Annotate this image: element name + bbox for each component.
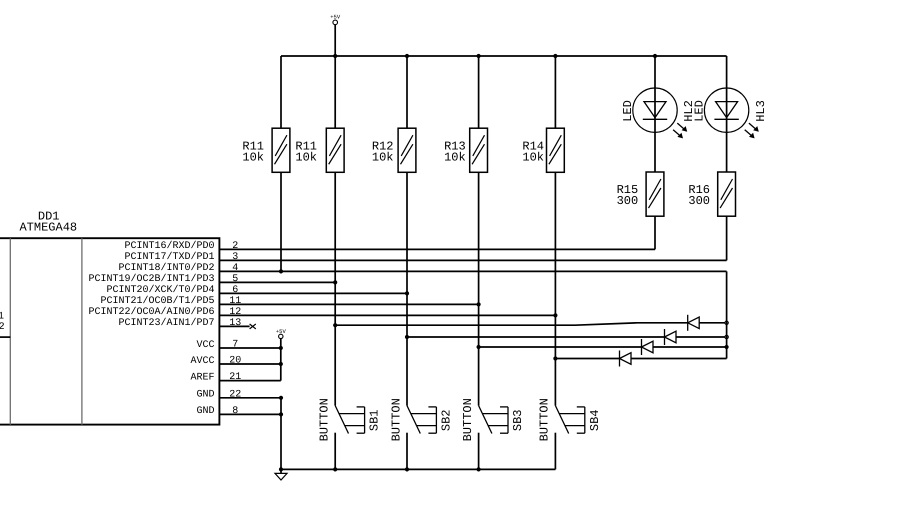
node gnd bus SB3 junction [477, 467, 481, 471]
node GND8 junction [279, 412, 283, 416]
node gnd bus SB1 junction [333, 467, 337, 471]
wire diode row A from SB1 [335, 323, 726, 325]
svg-text:2: 2 [0, 322, 5, 333]
IC internal divider 1 [9, 238, 11, 424]
svg-text:22: 22 [229, 389, 241, 400]
svg-text:300: 300 [617, 194, 639, 208]
svg-text:PCINT18/INT0/PD2: PCINT18/INT0/PD2 [118, 262, 214, 274]
node rowB/SB2 junction [405, 335, 409, 339]
svg-text:LED: LED [621, 100, 635, 122]
svg-text:10k: 10k [444, 150, 466, 164]
svg-text:AREF: AREF [190, 372, 214, 383]
resistor R11a 10k [242, 128, 290, 172]
wire bus to R11a [280, 56, 282, 128]
wire pin13 row PD7 stub [219, 325, 249, 327]
wire AVCC row [219, 363, 280, 365]
svg-text:ATMEGA48: ATMEGA48 [19, 221, 77, 235]
wire pin12 row PD6 to SB4 column [219, 314, 555, 316]
node gnd bus SB2 junction [405, 467, 409, 471]
svg-text:6: 6 [232, 285, 238, 296]
wire GND pin22 row [219, 397, 281, 399]
wire pin4 row PD2 to right vertical [219, 270, 726, 272]
wire diode row D from SB4 [555, 358, 726, 360]
svg-text:11: 11 [229, 296, 241, 307]
node bus/HL2 junction [653, 54, 657, 58]
wire diode row B from SB2 [407, 336, 727, 338]
switch SB1 BUTTON [318, 172, 382, 469]
resistor R13 10k [444, 128, 487, 172]
svg-text:10k: 10k [522, 150, 544, 164]
no-connect marker on pin13 [250, 324, 256, 329]
node rowD/SB4 junction [553, 356, 557, 360]
resistor R15 300 [617, 172, 664, 216]
node AVCC junction [279, 362, 283, 366]
svg-text:PCINT20/XCK/T0/PD4: PCINT20/XCK/T0/PD4 [106, 284, 214, 296]
wire bus to R13 [478, 56, 480, 128]
wire R15 to pin2 row [654, 216, 656, 249]
LED HL2 [621, 88, 696, 172]
op IC DD1 ATMEGA48 box [0, 238, 219, 424]
node pin11/SB3 junction [477, 302, 481, 306]
svg-text:7: 7 [232, 340, 238, 351]
resistor R14 10k [522, 128, 564, 172]
node rowA/right vertical junction [725, 321, 728, 324]
IC internal divider 2 [81, 238, 83, 424]
wire pin6 row PD4 to SB2 column [219, 292, 407, 294]
wire bus to R11b [334, 56, 336, 128]
wire pin2 row PD0 to R15 column [219, 248, 655, 250]
svg-text:10k: 10k [295, 150, 317, 164]
wire +5V stem to bus [334, 25, 336, 56]
ground symbol [280, 469, 282, 473]
switch SB4 BUTTON [538, 172, 602, 469]
svg-text:PCINT19/OC2B/INT1/PD3: PCINT19/OC2B/INT1/PD3 [88, 273, 214, 285]
wire pin11 row PD5 to SB3 column [219, 303, 478, 305]
wire bottom ground bus [281, 468, 555, 470]
diode D1 row A [688, 315, 700, 331]
wire bus to HL3 [726, 56, 728, 88]
svg-text:PCINT22/OC0A/AIN0/PD6: PCINT22/OC0A/AIN0/PD6 [88, 306, 214, 318]
diode D4 row D [620, 351, 632, 367]
svg-text:SB4: SB4 [588, 409, 602, 431]
diode D3 row C [642, 339, 654, 355]
node rowC/SB3 junction [477, 345, 481, 349]
svg-text:PCINT23/AIN1/PD7: PCINT23/AIN1/PD7 [118, 317, 214, 329]
svg-text:3: 3 [232, 252, 238, 263]
svg-text:LED: LED [693, 100, 707, 122]
switch SB2 BUTTON [389, 172, 453, 469]
svg-text:SB3: SB3 [511, 409, 525, 431]
node bus/R11 junction [333, 54, 337, 58]
svg-text:2: 2 [232, 241, 238, 252]
svg-text:AVCC: AVCC [190, 356, 214, 367]
svg-text:+5V: +5V [330, 14, 341, 21]
node VCC junction [279, 346, 283, 350]
wire R16 to pin3 row [726, 216, 728, 260]
svg-text:1: 1 [0, 311, 4, 322]
resistor R16 300 [688, 172, 735, 216]
wire right vertical pin4 to row D [726, 271, 728, 358]
svg-text:BUTTON: BUTTON [538, 398, 552, 441]
svg-text:HL3: HL3 [754, 100, 768, 122]
svg-text:GND: GND [196, 406, 214, 417]
node pin6/SB2 junction [405, 291, 409, 295]
wire +5V mid vertical [280, 339, 282, 381]
svg-text:BUTTON: BUTTON [461, 398, 475, 441]
svg-text:13: 13 [229, 318, 241, 329]
node pin12/SB4 junction [553, 313, 557, 317]
wire IC left pin stub [0, 336, 10, 338]
wire pin3 row PD1 to R16 column [219, 259, 726, 261]
wire R11a to pin4 row [280, 172, 282, 271]
svg-text:BUTTON: BUTTON [389, 398, 403, 441]
node bus/R14 junction [553, 54, 557, 58]
node bus/R12 junction [405, 54, 409, 58]
svg-text:5: 5 [232, 274, 238, 285]
svg-text:VCC: VCC [196, 340, 214, 351]
wire AREF row [219, 380, 280, 382]
wire bus to HL2 [654, 56, 656, 88]
wire diode row C from SB3 [479, 346, 727, 348]
svg-text:10k: 10k [372, 150, 394, 164]
svg-text:300: 300 [688, 194, 710, 208]
node rowC/right vertical junction [725, 345, 729, 349]
svg-text:10k: 10k [242, 150, 264, 164]
resistor R12 10k [372, 128, 416, 172]
wire GND vertical to bottom bus [280, 398, 282, 470]
wire top +5V bus [281, 55, 727, 57]
svg-text:8: 8 [232, 406, 238, 417]
wire VCC row [219, 347, 280, 349]
node rowB/right vertical junction [725, 335, 728, 338]
svg-text:BUTTON: BUTTON [318, 398, 332, 441]
svg-text:GND: GND [196, 390, 214, 401]
node bus/R13 junction [477, 54, 481, 58]
wire bus to R12 [406, 56, 408, 128]
node rowA/SB1 junction [333, 323, 337, 327]
wire GND pin8 row [219, 413, 281, 415]
wire bus to R14 [554, 56, 556, 128]
svg-text:PCINT21/OC0B/T1/PD5: PCINT21/OC0B/T1/PD5 [100, 295, 214, 307]
diode D2 row B [665, 329, 677, 345]
svg-text:SB1: SB1 [368, 409, 382, 431]
svg-text:20: 20 [229, 356, 241, 367]
resistor R11b 10k [295, 128, 344, 172]
svg-text:SB2: SB2 [440, 409, 454, 431]
svg-text:4: 4 [232, 263, 238, 274]
LED HL3 [693, 88, 768, 172]
svg-text:12: 12 [229, 307, 241, 318]
wire pin5 row PD3 to SB1 column [219, 281, 335, 283]
svg-text:PCINT17/TXD/PD1: PCINT17/TXD/PD1 [124, 251, 214, 263]
node gnd bus left junction [279, 467, 283, 471]
svg-text:PCINT16/RXD/PD0: PCINT16/RXD/PD0 [124, 240, 214, 252]
node GND22 junction [279, 396, 283, 400]
node pin5/SB1 junction [333, 280, 337, 284]
svg-text:21: 21 [229, 372, 241, 383]
switch SB3 BUTTON [461, 172, 525, 469]
node pin4/R11a junction [279, 269, 283, 273]
